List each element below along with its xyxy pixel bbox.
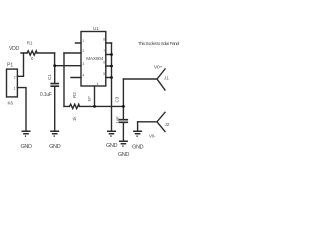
svg-text:GND: GND xyxy=(132,145,143,151)
wire U1 right stubs xyxy=(106,43,112,78)
connector J2 xyxy=(157,112,165,131)
svg-text:GND: GND xyxy=(49,144,60,150)
svg-text:J2: J2 xyxy=(165,122,170,127)
svg-text:J1: J1 xyxy=(164,76,169,81)
svg-text:8: 8 xyxy=(103,38,105,42)
svg-text:7: 7 xyxy=(103,49,105,53)
svg-text:GND: GND xyxy=(118,152,129,158)
svg-text:4: 4 xyxy=(83,74,85,78)
wire P1 pin1 to ground xyxy=(17,88,26,131)
ground (P1) xyxy=(22,131,31,136)
wire J2 feed xyxy=(138,121,157,123)
svg-text:2: 2 xyxy=(83,49,85,53)
connector P1 xyxy=(7,69,18,97)
svg-text:EP: EP xyxy=(86,96,91,102)
svg-text:K6: K6 xyxy=(8,101,14,106)
wire U1 pin row2 xyxy=(64,52,81,54)
svg-text:1: 1 xyxy=(14,86,16,90)
svg-text:C3: C3 xyxy=(114,96,119,102)
connector J1 xyxy=(157,69,165,90)
svg-text:0.1uF: 0.1uF xyxy=(40,92,52,98)
svg-text:6: 6 xyxy=(103,61,105,65)
svg-text:1k: 1k xyxy=(72,116,77,121)
svg-text:1uF: 1uF xyxy=(115,116,120,124)
svg-text:4: 4 xyxy=(97,82,99,86)
svg-text:MAX604: MAX604 xyxy=(86,56,104,61)
ground (C1) xyxy=(50,131,59,136)
svg-text:2: 2 xyxy=(14,76,16,80)
capacitor C1 xyxy=(54,66,56,84)
svg-text:C1: C1 xyxy=(47,74,52,80)
svg-text:V0+: V0+ xyxy=(154,64,163,70)
ground (bus) xyxy=(107,131,116,136)
wire right bus to ground xyxy=(111,43,113,131)
wire riser P1 pin2 to rail xyxy=(17,53,23,76)
wire to U1 pin row3 xyxy=(55,65,81,67)
svg-text:U1: U1 xyxy=(93,26,99,31)
node bus pin6 xyxy=(110,65,113,68)
wire J2 ground stem xyxy=(137,122,139,131)
node C3/J1 junction xyxy=(122,105,125,108)
svg-text:GND: GND xyxy=(106,143,117,149)
resistor R2 xyxy=(70,104,80,108)
wire rail drop to node VDD/C1 xyxy=(54,53,56,66)
svg-text:V0-: V0- xyxy=(149,134,156,139)
ground (C3) xyxy=(119,141,128,146)
resistor R1 xyxy=(27,51,37,55)
svg-text:This Socket to Solar Panel: This Socket to Solar Panel xyxy=(138,41,179,46)
svg-text:0: 0 xyxy=(31,56,34,61)
node bus pin7 xyxy=(110,53,113,56)
ground (J2) xyxy=(133,131,142,136)
svg-text:P1: P1 xyxy=(7,63,13,69)
wire VDD rail xyxy=(21,52,55,54)
wire J1 drop to C3 node xyxy=(122,79,124,106)
svg-text:VDD: VDD xyxy=(9,46,20,52)
capacitor C3 xyxy=(122,106,124,119)
svg-text:3: 3 xyxy=(83,62,85,66)
svg-text:R2: R2 xyxy=(72,92,77,98)
wire U1 bottom pin xyxy=(94,86,96,106)
svg-text:GND: GND xyxy=(20,144,31,150)
node bus pin5 xyxy=(110,76,113,79)
wire U1 left stubs xyxy=(71,43,81,78)
svg-text:5: 5 xyxy=(103,72,105,76)
wire vertical riser x64 to R2 xyxy=(63,53,65,106)
wire GND run with R2 xyxy=(64,105,123,107)
wire J1 feed xyxy=(123,78,157,80)
svg-text:R1: R1 xyxy=(27,40,33,45)
node VDD/C1 junction xyxy=(53,64,56,67)
svg-text:1: 1 xyxy=(83,39,85,43)
node U1 bottom pin junction xyxy=(93,105,96,108)
op-amp U1 body xyxy=(81,32,106,87)
